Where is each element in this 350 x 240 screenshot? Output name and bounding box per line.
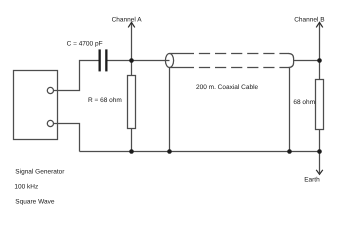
svg-text:Signal Generator: Signal Generator: [15, 168, 65, 175]
coax cable left end ellipse: [165, 54, 173, 68]
terminal T1 (upper output): [47, 87, 53, 93]
coax cable top line solid part: [170, 53, 195, 55]
svg-text:Channel A: Channel A: [112, 17, 143, 24]
coax cable right rounded cap: [289, 54, 294, 68]
earth arrow shaft: [319, 152, 321, 174]
capacitor C left plate: [99, 49, 101, 71]
svg-text:C = 4700 pF: C = 4700 pF: [67, 41, 103, 48]
ground rail wire: [80, 151, 320, 153]
wire R2 bottom to rail: [319, 130, 321, 152]
coax right shield wire down to rail: [289, 68, 291, 152]
wire R1 bottom to rail: [131, 129, 133, 152]
channel B arrow shaft: [319, 23, 321, 60]
channel A arrow shaft: [131, 23, 133, 60]
earth arrowhead: [316, 170, 323, 175]
svg-text:Channel B: Channel B: [294, 17, 324, 24]
coax cable top line dashed part: [194, 53, 289, 55]
wire node B down to R2: [319, 61, 321, 80]
svg-text:R = 68 ohm: R = 68 ohm: [88, 97, 122, 104]
coax left shield wire down to rail: [169, 68, 171, 152]
svg-text:Earth: Earth: [304, 177, 320, 184]
signal generator box: [14, 71, 58, 140]
junction earth-rail: [317, 149, 322, 154]
junction node B: [317, 58, 322, 63]
svg-text:100 kHz: 100 kHz: [14, 183, 38, 190]
junction node A: [129, 58, 134, 63]
channel A arrowhead: [128, 22, 135, 27]
svg-text:68 ohm: 68 ohm: [293, 99, 315, 106]
resistor R1 body: [128, 76, 136, 129]
resistor R2 body: [316, 80, 324, 130]
svg-text:Square Wave: Square Wave: [15, 199, 55, 206]
wire T1 to capacitor: [54, 61, 99, 91]
wire coax center to node B: [294, 60, 320, 62]
wire node A down to R1: [131, 61, 133, 76]
junction left-shield-rail: [167, 149, 172, 154]
coax cable bottom line solid part: [170, 67, 195, 69]
wire capacitor to node A and coax center: [108, 60, 170, 62]
wire T2 down to ground rail: [54, 124, 80, 152]
junction right-shield-rail: [287, 149, 292, 154]
capacitor C right plate: [105, 49, 107, 71]
junction R1-rail: [129, 149, 134, 154]
channel B arrowhead: [316, 22, 323, 27]
svg-text:200 m. Coaxial Cable: 200 m. Coaxial Cable: [196, 84, 259, 91]
terminal T2 (lower output): [47, 120, 53, 126]
coax cable bottom line dashed part: [194, 67, 289, 69]
